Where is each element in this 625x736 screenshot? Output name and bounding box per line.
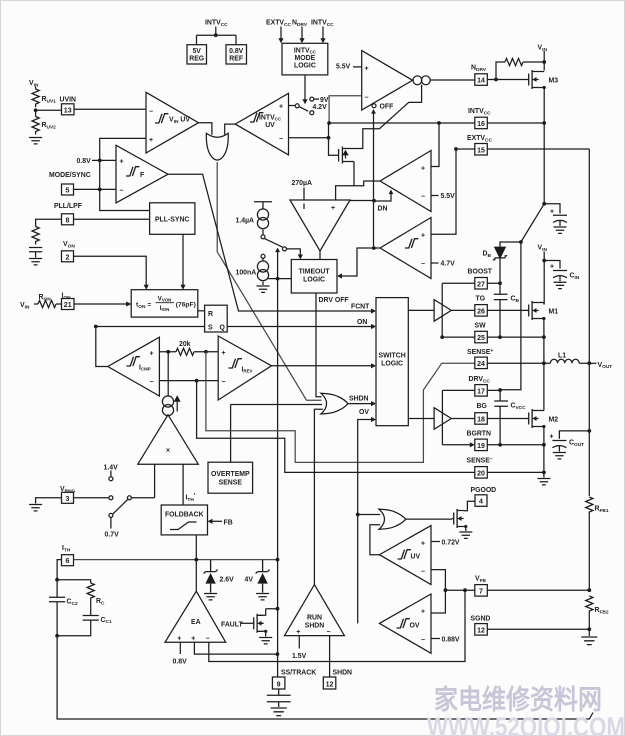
svg-text:5V: 5V (192, 48, 201, 55)
current source ICMP out (167, 352, 169, 396)
wire VOUT rail vertical (588, 149, 590, 496)
wire INTVcc to boost diode (500, 204, 544, 247)
gate OR SHDN (3 input) (321, 393, 348, 414)
wire pin3 to ground (36, 498, 62, 504)
wire VFB line (445, 589, 589, 591)
wire 100nA node to timeout logic (267, 278, 291, 280)
loop filter: wire, resistor, capacitor, ground (36, 219, 62, 226)
resistor RUV2 (35, 110, 37, 116)
svg-text:+: + (120, 159, 124, 166)
wire EA + to SS/TRACK (194, 642, 277, 654)
svg-text:0.8V: 0.8V (229, 48, 244, 55)
svg-text:+: + (331, 205, 335, 212)
svg-text:9V: 9V (320, 97, 329, 104)
wire EA ref 0.8V (179, 642, 181, 654)
op-amp F comparator (116, 145, 168, 203)
wire VIN UV out to OR gate (199, 123, 212, 135)
svg-text:REF: REF (229, 56, 243, 63)
svg-text:+: + (296, 629, 300, 636)
svg-text:TG: TG (476, 296, 486, 303)
svg-text:+: + (550, 264, 554, 271)
wire SGND line (487, 628, 589, 630)
op-amp OV comparator (379, 594, 431, 653)
capacitor COUT (559, 431, 589, 439)
block OVERTEMP SENSE (231, 405, 322, 463)
svg-text:17: 17 (477, 388, 485, 395)
svg-text:−: − (149, 109, 153, 116)
svg-text:+: + (177, 636, 181, 643)
svg-text:DRV OFF: DRV OFF (319, 297, 349, 304)
svg-text:−: − (421, 569, 425, 576)
wire BOOST rail (442, 282, 500, 284)
svg-text:−: − (120, 188, 124, 195)
wire mirror to pin 14 (413, 79, 475, 81)
transistor M1 (527, 301, 539, 320)
wire FB arrow into foldback (211, 520, 222, 522)
wire ICMP output to latch S (96, 327, 205, 367)
compensation network (57, 560, 91, 583)
block SWITCH LOGIC (376, 298, 408, 426)
resistor RFB1 (586, 497, 593, 515)
svg-text:−: − (421, 637, 425, 644)
op-amp 4.7V comparator (380, 218, 431, 279)
switch 9V / 4.2V select (289, 105, 295, 107)
wire RUN SHDN - to pin 12 (329, 636, 331, 677)
wire RUN SHDN ref 1.5V (298, 636, 300, 649)
transistor M2 (527, 409, 539, 428)
wire SENSE+ to inductor node (487, 362, 544, 364)
amp multiplier triangle (138, 415, 199, 464)
transistor M3 (527, 70, 539, 89)
current source 100nA (261, 254, 265, 258)
wire OR output down then diagonal to SHDN gate (217, 162, 321, 400)
svg-text:4.2V: 4.2V (313, 104, 328, 111)
watermark (427, 684, 625, 736)
wire 5.5V comp-A output to 270uA comparator (336, 181, 380, 200)
svg-text:+: + (279, 104, 283, 111)
svg-text:6: 6 (66, 558, 70, 565)
latch R/S (205, 305, 228, 332)
svg-text:1.4µA: 1.4µA (236, 218, 255, 225)
wire bottom return rail (57, 636, 593, 719)
svg-text:DN: DN (378, 206, 388, 213)
wire ICMP plus to 20k (159, 351, 176, 353)
svg-text:5.5V: 5.5V (336, 64, 351, 71)
block tON one-shot (131, 290, 198, 317)
svg-text:FCNT: FCNT (351, 304, 370, 311)
op-amp VIN UV comparator (146, 92, 199, 153)
svg-text:SGND: SGND (471, 616, 491, 623)
svg-text:SWITCH: SWITCH (379, 353, 406, 360)
wire SENSE- to M2 source / ground (487, 471, 544, 473)
svg-text:SENSE: SENSE (219, 480, 243, 487)
svg-text:7: 7 (479, 588, 483, 595)
svg-text:MODE: MODE (295, 55, 316, 62)
wire 4.7V comp output to timeout logic (342, 248, 381, 276)
svg-text:24: 24 (477, 361, 485, 368)
wire UV- / OV+ to VFB (431, 570, 445, 613)
svg-text:FOLDBACK: FOLDBACK (165, 512, 204, 519)
svg-text:RUN: RUN (307, 615, 322, 622)
svg-text:SENSE+: SENSE+ (467, 348, 493, 356)
svg-text:+: + (365, 66, 369, 73)
wire arrows into mode logic (281, 27, 323, 39)
block TIMEOUT LOGIC (291, 260, 337, 294)
wire BGRTN rail (442, 444, 470, 446)
svg-text:BG: BG (477, 403, 487, 410)
svg-text:LOGIC: LOGIC (303, 277, 325, 284)
svg-text:UVIN: UVIN (60, 97, 76, 104)
svg-text:BGRTN: BGRTN (467, 431, 492, 438)
svg-text:L1: L1 (558, 353, 566, 360)
wire minus to INTVcc rail (329, 96, 362, 123)
svg-text:S: S (208, 325, 213, 332)
svg-text:R: R (208, 311, 213, 318)
svg-text:OVERTEMP: OVERTEMP (211, 471, 250, 478)
svg-text:+: + (550, 209, 554, 216)
PLL-SYNC block (150, 203, 195, 235)
op-amp EA error amplifier (165, 591, 226, 642)
svg-text:SS/TRACK: SS/TRACK (281, 670, 316, 677)
wire tON block to latch R (198, 310, 205, 312)
resistor NDRV to VIN (496, 62, 505, 80)
svg-text:SW: SW (475, 323, 487, 330)
svg-text:WWW.52OIOI.COM: WWW.52OIOI.COM (427, 712, 625, 736)
wire PLL-SYNC to ION block (arrow) (182, 234, 184, 285)
capacitor CVcc (494, 390, 508, 445)
wire IREV out to switch logic (272, 365, 372, 367)
wire SENSE- staircase to ICMP minus (197, 381, 475, 473)
wire INTVcc UV out to OR gate (225, 124, 236, 135)
gate OR (UVLO) pointing down (206, 133, 228, 160)
wire (35, 87, 37, 90)
wire multiplier legs (155, 464, 184, 505)
wire pin21 to ION block (arrow) (74, 303, 127, 305)
resistor RC (87, 583, 94, 601)
wire DRVcc feed from boost diode node (500, 242, 521, 390)
svg-text:+: + (191, 636, 195, 643)
zener 2.6V clamp (204, 560, 218, 593)
svg-text:REG: REG (189, 56, 204, 63)
node VOUT (587, 361, 591, 365)
zener 4V clamp (256, 560, 270, 593)
svg-text:×: × (166, 448, 170, 455)
wire OV ref 0.88V (431, 638, 440, 640)
svg-text:1.4V: 1.4V (104, 465, 119, 472)
op-amp INTVcc UV comparator (235, 93, 288, 155)
op-amp NDRV regulator comparator (362, 51, 413, 110)
driver buffer TG (434, 300, 451, 322)
svg-text:+: + (149, 137, 153, 144)
wire VON to ION block (arrow) (74, 256, 147, 285)
svg-text:BOOST: BOOST (468, 269, 493, 276)
wire SS vertical with up arrow (277, 251, 279, 677)
svg-text:4: 4 (479, 499, 483, 506)
svg-text:0.7V: 0.7V (105, 532, 120, 539)
svg-text:18: 18 (477, 417, 485, 424)
svg-text:100nA: 100nA (236, 270, 257, 277)
svg-text:+: + (421, 609, 425, 616)
current source 1.4uA (257, 209, 268, 229)
svg-text:OFF: OFF (380, 104, 394, 111)
svg-text:TIMEOUT: TIMEOUT (299, 269, 331, 276)
svg-text:5: 5 (66, 188, 70, 195)
wire INTVcc node to bypass cap (544, 123, 560, 214)
svg-text:0.8V: 0.8V (77, 158, 92, 165)
op-amp UV comparator (379, 526, 431, 585)
svg-text:−: − (365, 95, 369, 102)
svg-text:+: + (222, 350, 226, 357)
svg-text:ON: ON (357, 319, 367, 326)
svg-text:FAULT: FAULT (221, 621, 243, 628)
wire INTVcc UV minus input (289, 137, 329, 139)
capacitor CIN (544, 261, 560, 269)
svg-text:M1: M1 (549, 309, 559, 316)
svg-text:M3: M3 (549, 78, 559, 85)
wire RUN SHDN output up into OR gate (314, 409, 322, 584)
ground (29, 138, 42, 144)
svg-text:MODE/SYNC: MODE/SYNC (49, 172, 91, 179)
svg-text:20: 20 (477, 470, 485, 477)
switch VRNG select (74, 497, 109, 499)
svg-text:19: 19 (477, 443, 485, 450)
svg-text:UV: UV (411, 554, 421, 561)
wire OV into switch logic (358, 420, 372, 624)
op-amp RUN SHDN comparator (285, 585, 345, 636)
svg-text:LOGIC: LOGIC (294, 63, 316, 70)
svg-text:EA: EA (191, 619, 201, 626)
svg-text:UV: UV (265, 122, 275, 129)
supply bar for 1.4uA source (254, 202, 272, 209)
svg-text:0.8V: 0.8V (173, 659, 188, 666)
wire 0.8V ref to both comparators (92, 138, 146, 189)
resistor RFB2 (586, 596, 593, 614)
switch OFF on comparator output (372, 104, 376, 108)
svg-text:LOGIC: LOGIC (381, 361, 403, 368)
svg-text:15: 15 (477, 147, 485, 154)
svg-text:+: + (550, 434, 554, 441)
svg-text:25: 25 (477, 335, 485, 342)
op-amp timeout comparator (points down) (290, 200, 350, 251)
node DN (350, 192, 391, 201)
node MODE/SYNC junction (98, 188, 102, 192)
svg-text:20k: 20k (179, 341, 191, 348)
svg-text:14: 14 (477, 78, 485, 85)
gate OR PGOOD (379, 509, 406, 529)
svg-text:Q: Q (220, 325, 226, 332)
transistor PGOOD fet (452, 509, 464, 528)
svg-text:2: 2 (66, 254, 70, 261)
wire INTVcc rail (329, 122, 545, 124)
wire UVIN to pin 13 (36, 109, 62, 111)
wire INTVcc to regulator boxes (197, 27, 237, 45)
wire latch Q to switch logic (ON) (227, 326, 371, 328)
svg-text:16: 16 (477, 121, 485, 128)
svg-text:PLL-SYNC: PLL-SYNC (155, 217, 189, 224)
svg-text:+: + (421, 233, 425, 240)
svg-text:4V: 4V (245, 577, 254, 584)
svg-text:+: + (421, 541, 425, 548)
wire ICMP minus / IREV minus (159, 380, 218, 382)
svg-text:家电维修资料网: 家电维修资料网 (434, 684, 602, 715)
svg-text:1.5V: 1.5V (292, 653, 307, 660)
svg-text:F: F (140, 172, 144, 179)
wire MODE/SYNC to PLL-SYNC (100, 189, 150, 210)
node UVIN junction (34, 108, 38, 112)
svg-text:3: 3 (66, 496, 70, 503)
wire UV ref 0.72V (431, 541, 440, 543)
svg-text:SHDN: SHDN (305, 623, 325, 630)
svg-text:+: + (421, 166, 425, 173)
resistor RUV1 (32, 89, 39, 107)
svg-text:−: − (279, 136, 283, 143)
svg-text:−: − (421, 261, 425, 268)
wire pin14 to M3 gate (487, 79, 528, 81)
switch (timeout select) (261, 235, 265, 239)
svg-text:2.6V: 2.6V (220, 577, 235, 584)
op-amp IREV comparator (218, 336, 271, 400)
wire DRVcc rail (442, 389, 500, 391)
capacitor CC1 (57, 601, 99, 636)
svg-text:8: 8 (66, 217, 70, 224)
wire DRV OFF from timeout down to SHDN gate (316, 293, 322, 397)
svg-text:−: − (206, 636, 210, 643)
capacitor CC2 (49, 580, 65, 636)
svg-text:(76pF): (76pF) (176, 302, 196, 309)
wire pin5 to F comparator (74, 188, 117, 190)
wire ITH line (74, 559, 278, 561)
wire pin13 to VIN UV comparator (74, 108, 146, 110)
block 0.8V REF (226, 45, 247, 64)
wire mirror lower path to shutdown fet (354, 85, 422, 149)
svg-text:+: + (150, 351, 154, 358)
block FOLDBACK (161, 505, 207, 535)
wire EA - to VFB (209, 590, 465, 661)
svg-text:SENSE−: SENSE− (467, 457, 493, 465)
wire comparator out to timeout logic (319, 251, 321, 260)
wire BG to M2 gate (451, 418, 528, 420)
block INTVcc MODE LOGIC (282, 43, 328, 75)
svg-text:PGOOD: PGOOD (471, 487, 497, 494)
resistor 20k (176, 348, 194, 355)
svg-text:−: − (222, 379, 226, 386)
op-amp 5.5V comparator (380, 151, 431, 212)
current mirror symbol (413, 76, 422, 85)
transistor (NDRV pulldown fet) (337, 147, 354, 164)
wire pin8 to PLL-SYNC box (74, 218, 150, 220)
svg-text:M2: M2 (549, 417, 559, 424)
svg-text:0.88V: 0.88V (442, 637, 460, 644)
wire mode logic to switch (arrow) (304, 75, 306, 100)
svg-text:PLL/LPF: PLL/LPF (54, 203, 82, 210)
svg-text:−: − (327, 629, 331, 636)
wire F comparator out diagonal to FCNT (168, 174, 372, 311)
svg-text:26: 26 (477, 308, 485, 315)
svg-text:5.5V: 5.5V (441, 193, 456, 200)
svg-text:SHDN: SHDN (333, 670, 353, 677)
wire SENSE+ staircase to 20k (gray) (206, 352, 475, 463)
svg-text:SHDN: SHDN (349, 396, 369, 403)
wire OR SHDN out to switch logic (348, 403, 372, 405)
capacitor CB (494, 283, 508, 337)
block 5V REG (187, 45, 207, 64)
op-amp ICMP comparator (108, 337, 160, 396)
driver buffer BG (434, 408, 451, 430)
svg-text:13: 13 (64, 107, 72, 114)
svg-text:21: 21 (64, 302, 72, 309)
svg-text:27: 27 (477, 281, 485, 288)
wire OR out to PGOOD fet (406, 518, 452, 520)
svg-text:12: 12 (326, 681, 334, 688)
svg-text:OV: OV (410, 623, 420, 630)
wire UV comp out into OR gate (370, 525, 380, 555)
wire TG to M1 gate (451, 309, 528, 311)
svg-text:270µA: 270µA (292, 180, 312, 187)
capacitor SS + ground (267, 689, 291, 707)
wire foldback bottom to ITH line (195, 535, 197, 560)
svg-text:−: − (421, 194, 425, 201)
svg-text:OV: OV (359, 409, 369, 416)
svg-text:FB: FB (224, 519, 233, 526)
wire OV rail into OR gate (356, 513, 360, 517)
svg-text:12: 12 (477, 627, 485, 634)
svg-text:4.7V: 4.7V (441, 261, 456, 268)
diode DB (schottky) (495, 247, 505, 258)
svg-text:9: 9 (277, 681, 281, 688)
wire SW rail (442, 336, 544, 338)
svg-text:0.72V: 0.72V (442, 540, 460, 547)
svg-text:−: − (150, 379, 154, 386)
